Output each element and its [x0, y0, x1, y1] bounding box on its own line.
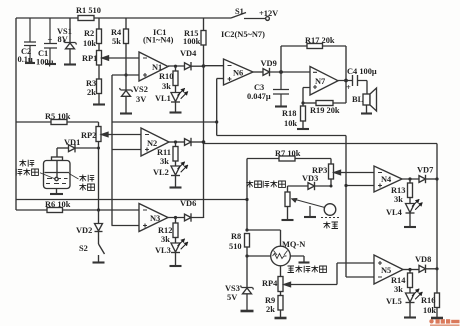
node N3 output to R12	[174, 216, 177, 219]
svg-text:0.047μ: 0.047μ	[247, 92, 271, 101]
potentiometer RP1	[82, 51, 109, 66]
wire N7 noninverting input	[303, 88, 310, 104]
resistor R1	[76, 6, 101, 21]
wire RP4 to R9	[280, 292, 282, 296]
wire R6 row	[16, 209, 139, 211]
diode VD1	[64, 138, 80, 152]
svg-text:VD2: VD2	[76, 226, 92, 235]
wire rail R1 to S1	[94, 17, 231, 19]
wire R9 to ground	[280, 310, 282, 318]
ground C2	[25, 62, 35, 64]
svg-text:R19 20k: R19 20k	[310, 106, 340, 115]
node RP3-VD3 junction	[330, 185, 333, 188]
svg-text:5V: 5V	[227, 293, 237, 302]
svg-text:VL2: VL2	[153, 168, 169, 177]
svg-text:(N1~N4): (N1~N4)	[143, 36, 174, 45]
svg-text:+: +	[48, 36, 53, 45]
svg-text:R2: R2	[84, 29, 94, 38]
node N5 output to R14	[408, 268, 411, 271]
op-amp N3	[139, 204, 168, 232]
wire RP3 wiper to N4 inverting input	[340, 172, 374, 174]
wire R12 to VL3	[175, 238, 177, 244]
svg-text:5k: 5k	[112, 37, 121, 46]
ground R9	[275, 317, 287, 320]
ground fuel sender	[282, 219, 294, 221]
svg-text:C4 100μ: C4 100μ	[347, 67, 377, 76]
svg-text:3V: 3V	[136, 95, 146, 104]
svg-text:MQ-N: MQ-N	[282, 240, 305, 249]
ground VS2	[120, 112, 132, 114]
svg-text:VL5: VL5	[386, 297, 402, 306]
ground C1	[45, 63, 56, 65]
wire VL5 to ground	[409, 303, 411, 318]
svg-text:VD6: VD6	[180, 199, 196, 208]
svg-text:VL4: VL4	[386, 208, 403, 217]
svg-text:R11: R11	[157, 148, 171, 157]
LED VL3	[155, 239, 188, 255]
wire VD6 to OR rail	[191, 217, 204, 220]
resistor R18	[282, 103, 306, 129]
node N7 noninverting R18-R19 junction	[301, 101, 304, 104]
resistor R5	[45, 112, 71, 125]
wire reference to N6 noninverting input	[217, 78, 224, 80]
svg-text:N2: N2	[147, 139, 157, 148]
wire reference to N4 noninverting input	[346, 185, 374, 187]
zener VS3	[225, 284, 254, 311]
wire 3V reference rail right	[345, 136, 347, 278]
svg-text:R1 510: R1 510	[76, 6, 101, 15]
svg-text:N6: N6	[233, 69, 243, 78]
svg-text:10k: 10k	[83, 39, 96, 48]
wire VD2 top	[98, 210, 100, 224]
resistor R4	[111, 18, 129, 46]
wire 3V reference to N6 and right section	[112, 79, 347, 136]
wire BL to ground	[366, 105, 368, 113]
node R8-MQ-N-VS3 junction	[245, 254, 248, 257]
node N4 output to R13	[408, 177, 411, 180]
svg-text:R16: R16	[421, 296, 435, 305]
svg-text:3k: 3k	[394, 285, 403, 294]
svg-text:VS3: VS3	[225, 284, 240, 293]
svg-text:N4: N4	[381, 175, 392, 184]
wire VL4 to ground	[409, 213, 411, 227]
wire R7 row	[247, 159, 331, 231]
ground VS1	[64, 63, 76, 65]
wire OR rail (N1-N3 outputs)	[203, 45, 205, 218]
wire R14 top	[409, 270, 411, 274]
wire RP4 wiper to N5 noninverting input	[291, 263, 375, 285]
svg-text:S1: S1	[235, 7, 244, 16]
wire VD9 to N7 inverting input	[270, 71, 311, 73]
svg-text:R8: R8	[231, 232, 241, 241]
diode VD6	[180, 199, 196, 222]
ground VL4	[404, 226, 416, 228]
potentiometer RP2	[81, 127, 108, 142]
ground VL5	[404, 316, 416, 318]
wire R5 row	[16, 122, 99, 127]
svg-text:10k: 10k	[284, 119, 297, 128]
wire RP2 bottom column	[98, 142, 100, 211]
svg-text:3k: 3k	[394, 195, 403, 204]
ground MQ-N right pin	[299, 261, 310, 263]
ground S2	[93, 261, 105, 263]
svg-text:R13: R13	[391, 186, 405, 195]
svg-text:VD1: VD1	[64, 138, 80, 147]
resistor R14	[391, 273, 413, 294]
wire R2 to RP1	[98, 44, 100, 51]
svg-text:2k: 2k	[87, 88, 96, 97]
wire float arm pivot to ground	[309, 206, 311, 217]
label cooling tank (leng que shui xiang)	[69, 174, 94, 191]
wire N4 output	[402, 178, 419, 180]
resistor R10	[159, 71, 178, 91]
svg-text:3k: 3k	[160, 157, 169, 166]
svg-text:3k: 3k	[161, 235, 170, 244]
wire VD4 to OR rail	[191, 65, 204, 67]
svg-text:BL: BL	[352, 95, 364, 104]
LED VL5	[386, 289, 422, 306]
op-amp N2	[141, 128, 169, 156]
ground C3	[275, 105, 287, 107]
wire 3V reference to N1 noninverting	[112, 74, 139, 76]
ground R3	[93, 103, 105, 105]
wire R8 top to MQ-N heater	[247, 230, 281, 247]
resistor R2	[83, 18, 102, 48]
potentiometer RP3	[312, 164, 341, 179]
node 8V-R7-R8 junction	[245, 198, 248, 201]
gas sensor MQ-N	[271, 240, 306, 266]
resistor R11	[157, 147, 178, 167]
wire tank electrode vertical	[56, 148, 58, 157]
fuel tank sender potentiometer	[285, 192, 325, 208]
wire reference to N5 inverting input	[346, 276, 374, 278]
wire fuel sender to ground	[287, 207, 289, 220]
resistor R19	[303, 81, 346, 116]
ground float arm pivot	[304, 216, 316, 218]
diode VD4	[180, 49, 197, 70]
svg-text:C3: C3	[254, 83, 264, 92]
node R8 top junction	[245, 228, 248, 231]
switch S1	[231, 7, 266, 19]
ground VS3	[241, 310, 254, 313]
svg-text:R14: R14	[391, 276, 406, 285]
svg-text:N1: N1	[152, 63, 162, 72]
wire 3V reference rail vertical	[111, 75, 113, 226]
ground tank	[50, 193, 63, 195]
svg-text:RP1: RP1	[82, 54, 97, 63]
wire R14 to VL5	[409, 288, 411, 294]
wire MQ-N right pin	[290, 256, 304, 262]
diode VD8	[415, 255, 431, 273]
wire N6 output	[253, 71, 263, 73]
wire 8V feed to gas sensor row	[16, 199, 247, 201]
svg-text:VD8: VD8	[415, 255, 431, 264]
svg-text:RP4: RP4	[262, 279, 278, 288]
LED VL1	[155, 88, 188, 103]
svg-text:VD7: VD7	[417, 166, 433, 175]
wire VD1 to RP2 column	[75, 147, 99, 149]
resistor R16	[421, 293, 440, 315]
node reference-N4 junction	[344, 184, 347, 187]
capacitor C2	[18, 18, 37, 64]
op-amp N4	[374, 166, 402, 192]
float (fu zi)	[321, 204, 339, 229]
zener VS1	[57, 18, 77, 64]
svg-text:VL3: VL3	[155, 246, 171, 255]
svg-text:R12: R12	[158, 226, 172, 235]
svg-text:R6 10k: R6 10k	[45, 200, 71, 209]
svg-text:R3: R3	[86, 79, 96, 88]
svg-text:R17 20k: R17 20k	[305, 36, 335, 45]
svg-text:S2: S2	[79, 244, 88, 253]
svg-text:3k: 3k	[162, 82, 171, 91]
diode VD3	[302, 174, 318, 190]
wire R10 to VL1	[175, 86, 177, 93]
wire R3 to ground	[98, 94, 100, 105]
node reference wire junction	[215, 120, 218, 123]
node VD9-C3-R17 junction	[279, 70, 283, 74]
svg-text:VL1: VL1	[155, 94, 171, 103]
wire VD3 to fuel sender	[288, 186, 309, 192]
wire VD5 to OR rail	[191, 141, 204, 143]
resistor R8	[229, 232, 250, 251]
wire N5 output	[403, 269, 419, 271]
wire alarm rail right	[436, 144, 438, 269]
resistor R3	[86, 79, 102, 97]
potentiometer RP4	[262, 277, 291, 292]
label water-level sensor (shui wei chuan gan qi)	[16, 160, 54, 179]
ground R18	[297, 128, 309, 130]
wire VD8 to alarm rail	[426, 268, 438, 270]
svg-text:2k: 2k	[266, 305, 275, 314]
svg-text:100μ: 100μ	[36, 58, 54, 67]
wire alarm rail to R16	[436, 269, 438, 293]
svg-text:10k: 10k	[423, 306, 436, 315]
zener VS2	[120, 75, 148, 113]
wire R8 bottom column to VS3	[246, 247, 248, 288]
speaker BL	[352, 81, 377, 112]
resistor R6	[45, 200, 71, 213]
wire RP3 bottom to VD3	[315, 179, 332, 186]
node VD5-OR rail junction	[202, 140, 206, 144]
wire OR rail to N6 inverting input	[204, 65, 224, 67]
diode VD7	[417, 166, 433, 184]
svg-text:N7: N7	[315, 77, 325, 86]
node VD4-R15 junction	[202, 64, 206, 68]
wire R13 to VL4	[409, 198, 411, 204]
op-amp N1	[139, 52, 168, 81]
label gas sensor (qi min chuan gan qi)	[288, 266, 327, 273]
node VD7-alarm rail junction	[435, 177, 438, 180]
op-amp N7	[310, 67, 338, 96]
ground VL3	[170, 265, 182, 267]
diode VD9	[261, 59, 277, 76]
node R4-VS2-N1 noninverting	[124, 73, 127, 76]
wire RP1 to R3	[98, 65, 100, 79]
wire VL3 to ground	[175, 253, 177, 266]
svg-text:R5 10k: R5 10k	[45, 112, 71, 121]
switch S2	[79, 244, 105, 262]
svg-text:8V: 8V	[58, 35, 68, 44]
wire N3 output	[168, 217, 185, 219]
watermark red logo	[429, 319, 459, 326]
wire R10 top	[175, 66, 177, 71]
svg-text:+: +	[346, 83, 351, 92]
wire N2 output	[169, 141, 185, 143]
wire OR signal to N6 and right section	[204, 143, 438, 145]
svg-text:R10: R10	[159, 72, 173, 81]
node N1 output to R10	[174, 65, 177, 68]
cooling water tank	[44, 157, 71, 189]
wire R16 to ground	[436, 308, 438, 318]
LED VL2	[153, 162, 188, 177]
label fuel tank sensor (you xiang chuan gan qi)	[246, 181, 285, 188]
svg-text:N3: N3	[150, 214, 160, 223]
wire MQ-N bottom to RP4	[280, 266, 282, 277]
resistor R7	[275, 149, 301, 161]
terminal +12V	[259, 9, 278, 20]
wire left rail (8V)	[15, 18, 17, 210]
svg-text:RP2: RP2	[81, 131, 96, 140]
wire R12 top	[175, 218, 177, 224]
capacitor C1	[36, 18, 57, 67]
wire R11 top	[175, 142, 177, 147]
node VD8-alarm rail junction	[435, 267, 438, 270]
ground BL	[361, 112, 372, 114]
capacitor C4	[338, 67, 377, 92]
wire VD7 to alarm rail	[426, 178, 438, 180]
wire 3V reference to N2 noninverting	[112, 149, 142, 151]
resistor R12	[158, 223, 178, 244]
wire RP1 wiper to N1 inverting input	[108, 57, 139, 59]
wire R11 to VL2	[175, 161, 177, 166]
wire tank electrode to VD1	[57, 147, 69, 149]
wire N1 output	[168, 65, 185, 67]
resistor R15	[183, 18, 206, 46]
svg-text:N5: N5	[381, 266, 391, 275]
svg-text:VD9: VD9	[261, 59, 277, 68]
svg-text:R4: R4	[111, 28, 122, 37]
wire tank to ground	[56, 189, 58, 194]
svg-text:100k: 100k	[183, 37, 201, 46]
op-amp N6	[224, 59, 254, 85]
resistor R9	[265, 296, 283, 315]
ground R16	[431, 317, 443, 320]
resistor R17 feedback	[281, 36, 346, 81]
ground VL2	[170, 186, 182, 188]
resistor R13	[391, 183, 413, 204]
wire 3V reference to N3 noninverting	[112, 225, 140, 227]
wire VD2 to S2	[98, 232, 100, 245]
node VD1-RP2 junction	[97, 147, 100, 150]
wire VL2 to ground	[175, 176, 177, 188]
node R6 row VD2 tap	[97, 208, 100, 211]
diode VD2	[76, 224, 103, 236]
ground VL1	[170, 111, 182, 113]
LED VL4	[386, 199, 422, 217]
label IC2	[221, 30, 265, 39]
svg-text:R18: R18	[282, 109, 296, 118]
svg-text:VD4: VD4	[180, 49, 197, 58]
svg-text:IC2(N5~N7): IC2(N5~N7)	[221, 30, 265, 39]
wire R7 to RP3	[330, 159, 332, 165]
svg-text:R7 10k: R7 10k	[275, 149, 301, 158]
wire MQ-N left pin	[247, 255, 271, 257]
svg-text:R9: R9	[265, 296, 275, 305]
wire RP2 wiper to N2 inverting input	[108, 134, 142, 136]
node N7 output junction	[344, 79, 348, 83]
op-amp N5	[374, 255, 403, 284]
label IC1	[143, 28, 174, 45]
diode VD5	[185, 138, 192, 146]
svg-text:510: 510	[229, 242, 242, 251]
svg-text:VD3: VD3	[302, 174, 318, 183]
svg-text:VS2: VS2	[133, 85, 148, 94]
wire 8V rail top-left	[16, 17, 78, 19]
wire R4 to VS2	[125, 44, 127, 76]
node N2 output to R11	[174, 140, 177, 143]
svg-text:+12V: +12V	[259, 9, 278, 18]
wire VL1 to ground	[175, 102, 177, 112]
wire R13 top	[409, 179, 411, 183]
capacitor C3	[247, 72, 289, 106]
